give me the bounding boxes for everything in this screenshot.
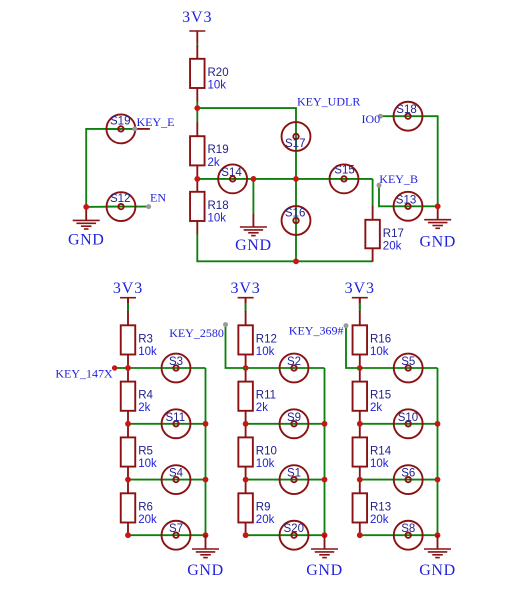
wire row S4 bbox=[128, 479, 206, 481]
pushbutton switch S14 bbox=[218, 164, 247, 193]
wire GND stub from middle bus bbox=[252, 179, 254, 214]
svg-text:R13: R13 bbox=[370, 501, 391, 513]
wire S15 to R17 (KEY_B net) bbox=[372, 179, 374, 206]
resistor R17 20k bbox=[365, 220, 404, 253]
junction col1 row1 bbox=[125, 365, 131, 371]
svg-text:S17: S17 bbox=[285, 138, 305, 150]
svg-text:R11: R11 bbox=[256, 390, 276, 402]
wire 3V3 col3 to R16 bbox=[359, 298, 361, 326]
net label EN bbox=[150, 190, 166, 204]
svg-text:S19: S19 bbox=[110, 115, 130, 127]
resistor R3 10k bbox=[121, 325, 157, 358]
ground GND middle bbox=[235, 214, 271, 255]
wire row S9 bbox=[246, 423, 325, 425]
svg-text:S2: S2 bbox=[287, 356, 301, 368]
pushbutton switch S8 bbox=[394, 521, 423, 550]
pushbutton switch S3 bbox=[162, 354, 191, 383]
svg-text:S13: S13 bbox=[396, 194, 416, 206]
net anchor EN bbox=[146, 204, 151, 209]
net anchor KEY_369# bbox=[344, 323, 349, 328]
svg-text:R6: R6 bbox=[138, 501, 153, 513]
svg-text:R14: R14 bbox=[370, 445, 392, 457]
pushbutton switch S16 bbox=[282, 206, 311, 235]
wire bottom bus right half bbox=[296, 260, 373, 262]
resistor R9 20k bbox=[238, 493, 274, 526]
pushbutton switch S9 bbox=[280, 409, 309, 438]
wire row S7 bbox=[128, 534, 206, 536]
junction right GND node bbox=[435, 203, 441, 209]
pushbutton switch S6 bbox=[394, 465, 423, 494]
pin R17 bottom bbox=[372, 248, 374, 261]
pin R17 top bbox=[372, 206, 374, 220]
ground GND col3 bbox=[419, 535, 455, 579]
svg-text:2k: 2k bbox=[370, 402, 382, 414]
svg-text:20k: 20k bbox=[383, 240, 402, 252]
pin R18 bottom bbox=[196, 221, 198, 235]
junction right col1 row3 bbox=[203, 477, 209, 483]
svg-text:3V3: 3V3 bbox=[345, 280, 375, 297]
pushbutton switch S4 bbox=[162, 465, 191, 494]
wire IO0 to S18 to corner bbox=[380, 116, 437, 206]
wire R18 to bottom bus bbox=[197, 234, 296, 261]
svg-text:GND: GND bbox=[419, 233, 455, 250]
svg-text:S11: S11 bbox=[166, 412, 186, 424]
svg-text:KEY_UDLR: KEY_UDLR bbox=[297, 94, 360, 108]
svg-text:S5: S5 bbox=[401, 356, 415, 368]
junction col2 row1 bbox=[243, 365, 249, 371]
junction right col2 row3 bbox=[322, 477, 328, 483]
resistor R16 10k bbox=[353, 325, 392, 358]
svg-text:KEY_369#: KEY_369# bbox=[289, 323, 344, 337]
resistor R10 10k bbox=[238, 437, 277, 470]
junction col3 row1 bbox=[357, 365, 363, 371]
ground GND left bbox=[68, 207, 104, 249]
wire 3V3 col2 to R12 bbox=[245, 298, 247, 326]
pin R19 top bbox=[196, 122, 198, 136]
junction col1 row2 bbox=[125, 421, 131, 427]
junction right col2 row4 bbox=[322, 532, 328, 538]
net anchor IO0 bbox=[378, 114, 383, 119]
svg-text:R5: R5 bbox=[138, 445, 153, 457]
junction S17-S16 node bbox=[293, 176, 299, 182]
pushbutton switch S17 bbox=[282, 122, 311, 151]
pushbutton switch S18 bbox=[394, 102, 423, 131]
junction right col3 row3 bbox=[435, 477, 441, 483]
wire row S2 bbox=[246, 367, 325, 369]
ground GND col2 bbox=[306, 535, 342, 579]
svg-text:S4: S4 bbox=[169, 468, 184, 480]
svg-text:R4: R4 bbox=[138, 390, 153, 402]
wire KEY_B anchor to S13 bbox=[379, 185, 438, 206]
pin R10 bottom bbox=[245, 467, 247, 480]
pin R20 bottom bbox=[196, 88, 198, 102]
wire row S1 bbox=[246, 479, 325, 481]
svg-text:R16: R16 bbox=[370, 333, 391, 345]
junction col2 row3 bbox=[243, 477, 249, 483]
junction col2 row2 bbox=[243, 421, 249, 427]
resistor R15 2k bbox=[353, 382, 392, 415]
junction right col2 row2 bbox=[322, 421, 328, 427]
svg-text:10k: 10k bbox=[208, 212, 227, 224]
wire middle row bus (R19 junction to S15) bbox=[197, 178, 372, 180]
svg-text:EN: EN bbox=[150, 190, 166, 204]
pin R14 bottom bbox=[359, 467, 361, 480]
svg-text:GND: GND bbox=[306, 562, 342, 579]
wire through S19 bbox=[107, 128, 135, 130]
pushbutton switch S7 bbox=[162, 521, 191, 550]
wire 3V3 col1 to R3 bbox=[127, 298, 129, 326]
svg-text:S15: S15 bbox=[334, 165, 354, 177]
svg-text:S12: S12 bbox=[110, 193, 130, 205]
svg-text:S9: S9 bbox=[287, 412, 301, 424]
net label KEY_369# bbox=[289, 323, 344, 337]
junction right col1 row2 bbox=[203, 421, 209, 427]
svg-text:R20: R20 bbox=[208, 67, 229, 79]
pin R16 bottom bbox=[359, 355, 361, 369]
net label KEY_UDLR bbox=[297, 94, 360, 108]
pin S19 right (unconnected) bbox=[135, 128, 150, 130]
junction right col3 row4 bbox=[435, 532, 441, 538]
wire 3V3 to R20 bbox=[196, 44, 198, 59]
svg-text:20k: 20k bbox=[138, 514, 157, 526]
junction GND stub node bbox=[251, 176, 257, 182]
svg-text:10k: 10k bbox=[256, 458, 275, 470]
junction col3 row2 bbox=[357, 421, 363, 427]
svg-text:S14: S14 bbox=[221, 167, 242, 179]
pin R14 top bbox=[359, 424, 361, 438]
ground GND right bbox=[419, 206, 455, 250]
wire junction to S17 (KEY_UDLR net) bbox=[197, 108, 296, 136]
svg-text:3V3: 3V3 bbox=[113, 280, 143, 297]
svg-text:S8: S8 bbox=[401, 523, 415, 535]
junction col3 row4 bbox=[357, 532, 363, 538]
pin R9 bottom bbox=[245, 523, 247, 536]
svg-text:IO0: IO0 bbox=[362, 112, 381, 126]
wire through S12 (EN net) bbox=[107, 206, 149, 208]
junction right col1 row4 bbox=[203, 532, 209, 538]
net label IO0 bbox=[362, 112, 381, 126]
svg-text:3V3: 3V3 bbox=[230, 280, 260, 297]
pin R13 top bbox=[359, 480, 361, 494]
pushbutton switch S13 bbox=[394, 192, 423, 221]
pin R6 bottom bbox=[127, 523, 129, 536]
junction col1 row3 bbox=[125, 477, 131, 483]
resistor R13 20k bbox=[353, 493, 392, 526]
svg-text:2k: 2k bbox=[208, 157, 220, 169]
pin R19 bottom bbox=[196, 165, 198, 179]
wire row S20 bbox=[246, 534, 325, 536]
pin R5 top bbox=[127, 424, 129, 438]
svg-text:S20: S20 bbox=[284, 523, 304, 535]
resistor R12 10k bbox=[238, 325, 277, 358]
pin R11 top bbox=[245, 368, 247, 382]
pushbutton switch S5 bbox=[394, 354, 423, 383]
pin R13 bottom bbox=[359, 523, 361, 536]
net label KEY_147X bbox=[55, 366, 113, 380]
svg-text:KEY_E: KEY_E bbox=[137, 115, 175, 129]
resistor R20 10k bbox=[190, 59, 229, 92]
svg-text:R12: R12 bbox=[256, 333, 277, 345]
wire row S6 bbox=[360, 479, 438, 481]
net label KEY_2580 bbox=[169, 326, 224, 340]
resistor R6 20k bbox=[121, 493, 157, 526]
pin R11 bottom bbox=[245, 411, 247, 424]
pin R9 top bbox=[245, 480, 247, 494]
wire KEY_2580 to col2 bbox=[226, 325, 246, 368]
pushbutton switch S10 bbox=[394, 409, 423, 438]
svg-text:KEY_2580: KEY_2580 bbox=[169, 326, 224, 340]
wire row S11 bbox=[128, 423, 206, 425]
power flag 3V3 (col2) bbox=[230, 280, 260, 310]
pin R5 bottom bbox=[127, 467, 129, 480]
resistor R5 10k bbox=[121, 437, 157, 470]
resistor R4 2k bbox=[121, 382, 154, 415]
svg-text:20k: 20k bbox=[370, 514, 389, 526]
pushbutton switch S20 bbox=[280, 521, 309, 550]
svg-text:10k: 10k bbox=[370, 458, 389, 470]
svg-text:S3: S3 bbox=[169, 356, 183, 368]
svg-text:R10: R10 bbox=[256, 445, 277, 457]
net label KEY_E bbox=[137, 115, 175, 129]
svg-text:S1: S1 bbox=[287, 468, 301, 480]
svg-text:R19: R19 bbox=[208, 144, 229, 156]
junction left GND bbox=[83, 204, 89, 210]
svg-text:R15: R15 bbox=[370, 390, 391, 402]
svg-text:S10: S10 bbox=[398, 412, 418, 424]
wire R20 to node KEY_UDLR junction bbox=[196, 102, 198, 109]
pin R4 bottom bbox=[127, 411, 129, 424]
net anchor KEY_E bbox=[132, 126, 137, 131]
svg-text:GND: GND bbox=[419, 562, 455, 579]
svg-text:10k: 10k bbox=[138, 458, 157, 470]
svg-text:KEY_147X: KEY_147X bbox=[55, 366, 113, 380]
net anchor KEY_2580 bbox=[223, 322, 228, 327]
wire row S3 bbox=[128, 367, 206, 369]
power flag 3V3 (col1) bbox=[113, 280, 143, 310]
svg-text:S16: S16 bbox=[285, 208, 305, 220]
junction col2 row4 bbox=[243, 532, 249, 538]
wire junction down to R19 bbox=[196, 108, 198, 122]
junction bottom bus node bbox=[293, 258, 299, 264]
wire right vertical col3 bbox=[437, 368, 439, 535]
pushbutton switch S15 bbox=[330, 164, 359, 193]
wire KEY_369# to col3 bbox=[346, 326, 360, 368]
svg-text:10k: 10k bbox=[370, 346, 389, 358]
svg-text:10k: 10k bbox=[208, 79, 227, 91]
ground GND col1 bbox=[187, 535, 223, 579]
svg-text:S7: S7 bbox=[169, 523, 183, 535]
pushbutton switch S19 bbox=[106, 114, 135, 143]
pin R4 top bbox=[127, 368, 129, 382]
wire row S5 bbox=[360, 367, 438, 369]
net anchor KEY_147X bbox=[112, 365, 131, 370]
pin R12 bottom bbox=[245, 355, 247, 369]
power flag 3V3 (col3) bbox=[345, 280, 375, 310]
pin R15 top bbox=[359, 368, 361, 382]
svg-text:2k: 2k bbox=[256, 402, 268, 414]
svg-text:GND: GND bbox=[235, 237, 271, 254]
wire S17-S16 vertical bbox=[295, 137, 297, 262]
pin R10 top bbox=[245, 424, 247, 438]
pin R15 bottom bbox=[359, 411, 361, 424]
svg-text:R3: R3 bbox=[138, 333, 153, 345]
svg-text:KEY_B: KEY_B bbox=[379, 172, 418, 186]
pin R6 top bbox=[127, 480, 129, 494]
svg-text:S6: S6 bbox=[401, 468, 415, 480]
pin R3 bottom bbox=[127, 355, 129, 369]
junction R19-R18 node bbox=[194, 176, 200, 182]
pushbutton switch S1 bbox=[280, 465, 309, 494]
wire right vertical col1 bbox=[205, 368, 207, 535]
power flag 3V3 (top) bbox=[182, 9, 212, 44]
svg-text:20k: 20k bbox=[256, 514, 275, 526]
svg-text:S18: S18 bbox=[396, 104, 416, 116]
resistor R14 10k bbox=[353, 437, 392, 470]
svg-text:2k: 2k bbox=[138, 402, 150, 414]
svg-text:R9: R9 bbox=[256, 501, 271, 513]
junction KEY_UDLR node bbox=[194, 105, 200, 111]
net anchor KEY_B bbox=[377, 183, 382, 188]
svg-text:R18: R18 bbox=[208, 200, 229, 212]
pin R18 top bbox=[196, 179, 198, 192]
junction col3 row3 bbox=[357, 477, 363, 483]
svg-text:10k: 10k bbox=[138, 346, 157, 358]
wire S19 to S12 left vertical bbox=[86, 129, 121, 207]
svg-text:3V3: 3V3 bbox=[182, 9, 212, 26]
wire row S10 bbox=[360, 423, 438, 425]
wire right vertical col2 bbox=[324, 368, 326, 535]
wire row S8 bbox=[360, 534, 438, 536]
pushbutton switch S12 bbox=[107, 192, 136, 221]
junction right col3 row2 bbox=[435, 421, 441, 427]
net label KEY_B bbox=[379, 172, 418, 186]
svg-text:GND: GND bbox=[68, 232, 104, 249]
resistor R11 2k bbox=[238, 382, 276, 415]
svg-text:GND: GND bbox=[187, 562, 223, 579]
svg-text:R17: R17 bbox=[383, 228, 404, 240]
resistor R18 10k bbox=[190, 192, 229, 225]
svg-text:10k: 10k bbox=[256, 346, 275, 358]
resistor R19 2k bbox=[190, 136, 229, 169]
pushbutton switch S2 bbox=[280, 354, 309, 383]
junction col1 row4 bbox=[125, 532, 131, 538]
pushbutton switch S11 bbox=[162, 409, 191, 438]
